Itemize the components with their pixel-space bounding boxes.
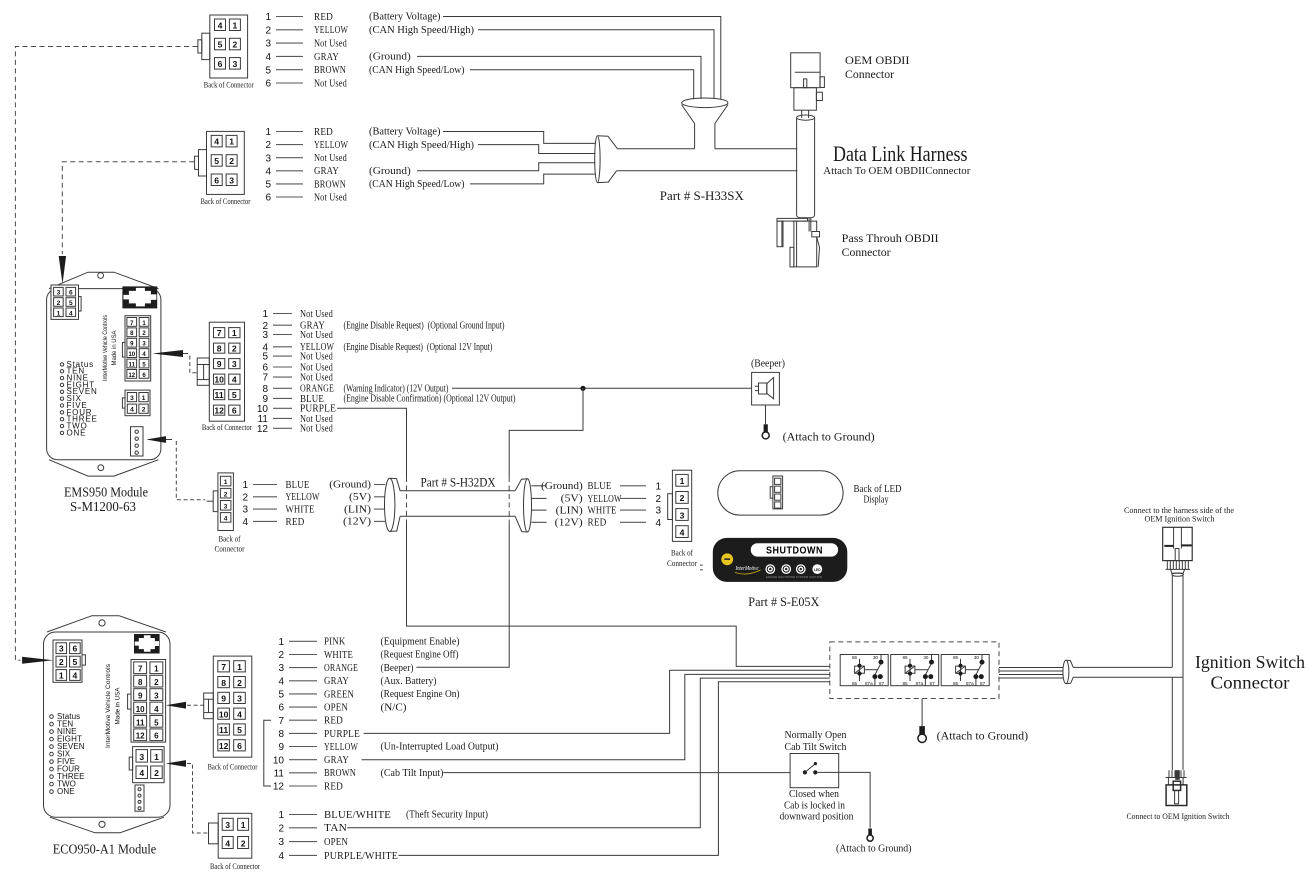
svg-text:Not Used: Not Used: [314, 77, 347, 89]
svg-text:SHUTDOWN: SHUTDOWN: [766, 546, 823, 557]
svg-text:87: 87: [980, 681, 986, 686]
svg-text:WHITE: WHITE: [588, 505, 617, 517]
svg-text:9: 9: [138, 692, 143, 701]
P5 pin 1: BLUE/WHITE (Theft Security Input): [278, 809, 488, 821]
svg-text:4: 4: [224, 516, 228, 523]
EMS950 12-pin connector (on module): [122, 316, 150, 381]
svg-text:(5V): (5V): [561, 494, 584, 505]
svg-text:2: 2: [59, 657, 64, 667]
ECO950 4-pin connector (on module): [129, 747, 164, 783]
svg-text:(Request Engine Off): (Request Engine Off): [381, 650, 459, 661]
P4 pin 7: RED: [278, 715, 343, 727]
label: Connect to the harness side of the OEM Ignition Switch: [1124, 506, 1234, 524]
svg-text:RED: RED: [286, 516, 305, 528]
svg-text:2: 2: [224, 491, 228, 498]
label: Back of Connector (P3): [667, 549, 697, 569]
svg-text:5: 5: [265, 65, 271, 76]
svg-text:(5V): (5V): [349, 492, 372, 503]
cab tilt switch: [790, 754, 839, 788]
J2 pin 4: GRAY (Ground): [265, 165, 411, 177]
wire: P5 pin4 (PURPLE/WHITE) to relay box: [398, 682, 829, 856]
svg-text:5: 5: [265, 180, 271, 191]
connector J1 (6-pin, back of connector): [198, 15, 248, 78]
svg-text:Connector: Connector: [845, 67, 894, 81]
svg-text:BROWN: BROWN: [314, 178, 346, 190]
svg-text:GRAY: GRAY: [314, 165, 339, 177]
svg-text:8: 8: [221, 678, 226, 688]
svg-text:Not Used: Not Used: [300, 308, 333, 320]
svg-text:6: 6: [265, 79, 271, 90]
svg-text:6: 6: [214, 175, 219, 185]
svg-text:11: 11: [215, 390, 224, 400]
svg-text:Attach To OEM OBDIIConnector: Attach To OEM OBDIIConnector: [823, 166, 971, 177]
svg-text:Not Used: Not Used: [300, 372, 333, 384]
svg-text:(Beeper): (Beeper): [381, 663, 414, 674]
svg-text:Back of LED: Back of LED: [854, 484, 902, 495]
arrow into EMS950 module 6-pin connector: [59, 256, 66, 284]
label: EMS950 Module S-M1200-63: [64, 486, 148, 516]
svg-text:9: 9: [217, 359, 222, 369]
svg-text:1: 1: [142, 395, 146, 402]
svg-text:(Request Engine On): (Request Engine On): [381, 689, 460, 700]
svg-text:4: 4: [265, 52, 271, 63]
svg-text:3: 3: [278, 663, 284, 674]
svg-text:(12V): (12V): [555, 518, 584, 529]
svg-text:(Ground): (Ground): [329, 480, 371, 491]
P2 signal labels (Ground/5V/LIN/12V): [329, 480, 385, 528]
svg-text:4: 4: [242, 517, 248, 528]
ground symbol (cab switch): [867, 829, 873, 842]
pass through OBDII connector: [777, 218, 820, 267]
svg-text:2: 2: [232, 344, 237, 354]
wire: P1 pin10 (PURPLE) to relay box: [337, 408, 830, 666]
svg-text:Part # S-H32DX: Part # S-H32DX: [421, 476, 496, 490]
wire: J1 pin1 to harness funnel: [443, 17, 721, 100]
stray marks left of shutdown display: [700, 565, 703, 570]
label: Pass Throuh OBDII Connector: [842, 231, 939, 259]
svg-text:OPEN: OPEN: [324, 836, 348, 848]
P1 pin 2: GRAY (Engine Disable Request)&#160;&#160;(Optional Ground Input): [262, 320, 504, 332]
svg-text:Back of Connector: Back of Connector: [204, 81, 254, 90]
svg-text:4: 4: [154, 705, 159, 714]
wire: P5 pin2 (TAN) to relay box: [347, 678, 830, 828]
svg-text:4: 4: [278, 851, 284, 862]
ECO950 vertical text: [105, 663, 122, 748]
svg-text:30: 30: [873, 655, 879, 660]
cable boot (S-H33SX harness entry): [595, 136, 618, 183]
svg-text:5: 5: [237, 725, 242, 735]
svg-text:1: 1: [59, 671, 64, 681]
P1 pin 5: Not Used: [262, 351, 333, 363]
svg-text:5: 5: [154, 718, 159, 727]
svg-text:Made in USA: Made in USA: [115, 687, 122, 724]
dashed lead: J1 latch to ECO950 module connector: [15, 47, 197, 661]
J1 pin 2: YELLOW (CAN High Speed/High): [265, 24, 474, 36]
svg-text:BLUE/WHITE: BLUE/WHITE: [324, 809, 391, 821]
svg-text:RED: RED: [314, 11, 333, 23]
wire: J2 pin2 to cable boot: [478, 145, 595, 154]
svg-text:(Attach to Ground): (Attach to Ground): [836, 843, 912, 854]
jumper bracket P4 pins 7-12: [264, 720, 271, 786]
svg-text:12: 12: [128, 373, 135, 379]
svg-text:(CAN High Speed/Low): (CAN High Speed/Low): [369, 65, 465, 76]
EMS950 vertical text: [102, 315, 118, 381]
svg-text:6: 6: [237, 741, 242, 751]
svg-text:BROWN: BROWN: [324, 767, 356, 779]
ECO950 mounting hole (top): [99, 620, 105, 626]
svg-text:10: 10: [219, 709, 229, 719]
svg-text:(Un-Interrupted Load Output): (Un-Interrupted Load Output): [381, 742, 499, 753]
svg-text:4: 4: [225, 838, 230, 848]
wire: P4 pin11 (BROWN) to cab tilt switch: [443, 772, 802, 774]
svg-text:87a: 87a: [865, 681, 873, 686]
svg-text:OEM Ignition Switch: OEM Ignition Switch: [1145, 515, 1215, 524]
ECO950 diagnostic jack (black): [134, 634, 160, 654]
svg-text:InterMotive Vehicle Controls: InterMotive Vehicle Controls: [102, 315, 109, 381]
svg-text:3: 3: [130, 395, 134, 402]
svg-text:9: 9: [278, 742, 284, 753]
wire: P4 pin8 (PURPLE) to relay box: [364, 670, 830, 733]
label: OEM OBDII Connector: [845, 53, 910, 81]
EMS950 6-pin connector (on module): [51, 285, 81, 319]
cable boot right (S-H32DX): [515, 479, 531, 532]
svg-text:Connector: Connector: [1211, 673, 1290, 693]
svg-text:(Aux. Battery): (Aux. Battery): [381, 676, 437, 687]
svg-text:11: 11: [129, 362, 136, 368]
P2 pin 1: BLUE: [242, 479, 309, 491]
relay K2: [891, 655, 939, 686]
svg-text:(LIN): (LIN): [556, 505, 584, 516]
label: Ignition Switch Connector: [1195, 652, 1305, 693]
svg-text:5: 5: [262, 352, 268, 363]
ground symbol (relays): [918, 726, 926, 742]
svg-text:Not Used: Not Used: [314, 152, 347, 164]
svg-text:3: 3: [59, 644, 64, 654]
dashed lead to ECO 12-pin back-of-connector: [187, 704, 204, 706]
svg-text:2: 2: [278, 823, 284, 834]
svg-text:1: 1: [232, 328, 237, 338]
svg-text:4: 4: [139, 768, 144, 778]
wire: J1 pin4 to harness funnel: [417, 56, 701, 99]
svg-text:Connector: Connector: [215, 545, 245, 554]
svg-text:6: 6: [69, 290, 73, 297]
svg-text:ONE: ONE: [57, 787, 75, 796]
svg-text:Back of: Back of: [671, 549, 693, 558]
svg-text:30: 30: [923, 655, 929, 660]
harness funnel to OEM OBDII branch: [682, 98, 728, 149]
svg-text:4: 4: [69, 310, 73, 317]
svg-text:10: 10: [214, 375, 224, 385]
cable boot (ignition switch harness): [1063, 660, 1073, 683]
P1 pin 6: Not Used: [262, 361, 333, 373]
EMS950 status LEDs: [60, 360, 97, 438]
label: Back of LED Display: [854, 484, 902, 506]
svg-text:(Ground): (Ground): [369, 166, 411, 177]
EMS950 mounting hole (bottom): [98, 465, 104, 471]
P1 pin 3: Not Used: [262, 329, 333, 341]
svg-text:OPEN: OPEN: [324, 702, 348, 714]
connector J2 (6-pin, back of connector): [195, 131, 245, 194]
ignition harness cable (horizontal): [1073, 667, 1183, 677]
svg-text:87a: 87a: [915, 681, 923, 686]
svg-text:RED: RED: [324, 715, 343, 727]
svg-text:2: 2: [680, 493, 685, 503]
svg-text:BLUE: BLUE: [286, 479, 310, 491]
svg-text:3: 3: [229, 175, 234, 185]
svg-text:2: 2: [142, 407, 146, 414]
svg-text:8: 8: [217, 344, 222, 354]
P1 pin 12: Not Used: [257, 423, 333, 435]
P4 pin 4: GRAY (Aux. Battery): [278, 675, 437, 687]
svg-text:1: 1: [154, 752, 159, 762]
svg-text:(Engine Disable Confirmation): (Engine Disable Confirmation) (Optional …: [344, 394, 516, 405]
svg-text:Not Used: Not Used: [314, 191, 347, 203]
svg-text:Back of Connector: Back of Connector: [202, 423, 252, 432]
cable boot left (S-H32DX): [385, 478, 401, 531]
svg-text:YELLOW: YELLOW: [588, 493, 622, 505]
svg-text:ORANGE: ORANGE: [324, 662, 358, 674]
svg-text:Ignition Switch: Ignition Switch: [1195, 652, 1305, 672]
J2 pin 6: Not Used: [265, 191, 347, 203]
svg-text:Not Used: Not Used: [300, 329, 333, 341]
EMS950 mounting hole (top): [98, 273, 104, 279]
svg-text:GRAY: GRAY: [324, 754, 349, 766]
wire: P1 pin8 (ORANGE) to beeper: [452, 387, 752, 389]
svg-text:(CAN High Speed/High): (CAN High Speed/High): [369, 25, 474, 36]
svg-text:3: 3: [233, 59, 238, 69]
ground symbol (beeper): [762, 424, 769, 439]
shutdown display (S-E05X): [713, 538, 848, 582]
J2 pin 1: RED (Battery Voltage): [265, 126, 441, 138]
svg-text:5: 5: [218, 40, 223, 50]
label: Normally Open Cab Tilt Switch: [785, 730, 848, 753]
ECO950 mounting hole (bottom): [99, 821, 105, 827]
svg-text:(Engine Disable Request) (Opt: (Engine Disable Request) (Optional 12V I…: [344, 342, 493, 353]
svg-text:(Battery Voltage): (Battery Voltage): [369, 12, 441, 23]
P1 pin 8: ORANGE (Warning Indicator) (12V Output): [262, 383, 448, 395]
svg-text:1: 1: [229, 137, 234, 147]
svg-text:WHITE: WHITE: [324, 649, 353, 661]
svg-text:85: 85: [852, 681, 858, 686]
svg-text:RED: RED: [324, 780, 343, 792]
svg-text:10: 10: [273, 755, 285, 766]
relay K3: [941, 655, 989, 686]
svg-text:1: 1: [242, 480, 248, 491]
dashed lead to LIN back-of-connector: [176, 441, 205, 500]
svg-text:InterMotive: InterMotive: [735, 566, 759, 572]
dashed lead to external 12-pin connector: [190, 356, 197, 373]
arrow from ECO950 12-pin connector: [166, 702, 186, 709]
svg-text:1: 1: [680, 476, 685, 486]
svg-text:1: 1: [278, 810, 284, 821]
P4 pin 8: PURPLE: [278, 728, 360, 740]
wire: P4 pin10 (GRAY) to relay box: [362, 674, 830, 759]
svg-text:YELLOW: YELLOW: [314, 24, 348, 36]
svg-text:Not Used: Not Used: [300, 423, 333, 435]
svg-text:RED: RED: [314, 126, 333, 138]
svg-text:Back of: Back of: [219, 535, 241, 544]
svg-text:TAN: TAN: [324, 822, 347, 834]
arrow into ECO950 6-pin connector: [22, 657, 53, 664]
wire: relay box to ground: [921, 699, 923, 727]
svg-text:9: 9: [221, 694, 226, 704]
svg-text:(CAN High Speed/Low): (CAN High Speed/Low): [369, 179, 465, 190]
svg-text:GREEN: GREEN: [324, 688, 354, 700]
svg-text:4: 4: [218, 20, 223, 30]
dashed lead: J2 latch to EMS950 module connector: [62, 162, 194, 254]
svg-text:1: 1: [265, 12, 271, 23]
wires: relay box to ignition boot: [999, 668, 1063, 679]
svg-text:6: 6: [278, 703, 284, 714]
svg-text:5: 5: [214, 156, 219, 166]
svg-text:1: 1: [656, 481, 662, 492]
svg-text:3: 3: [224, 503, 228, 510]
svg-text:7: 7: [138, 665, 143, 674]
svg-text:3: 3: [237, 694, 242, 704]
svg-text:87: 87: [879, 681, 885, 686]
svg-text:Normally Open: Normally Open: [785, 730, 848, 741]
svg-text:BROWN: BROWN: [314, 64, 346, 76]
svg-text:PURPLE/WHITE: PURPLE/WHITE: [324, 850, 398, 862]
svg-text:12: 12: [273, 782, 285, 793]
wires: right boot to labels: [531, 486, 546, 523]
P5 pin 2: TAN: [278, 822, 347, 834]
P4 pin 3: ORANGE (Beeper): [278, 662, 414, 674]
svg-text:(Attach to Ground): (Attach to Ground): [783, 431, 875, 443]
ECO950 12-pin connector (on module): [128, 660, 166, 743]
arrow from ECO950 4-pin connector: [166, 760, 186, 767]
P4 pin 5: GREEN (Request Engine On): [278, 688, 460, 700]
ignition harness connector (top): [1163, 527, 1193, 576]
svg-text:3: 3: [265, 39, 271, 50]
wire: beeper junction down to ECO pin3 (ORANGE beeper wire): [416, 388, 583, 667]
harness cable S-H33SX (horizontal): [617, 149, 798, 171]
svg-text:(Engine Disable Request) (Opt: (Engine Disable Request) (Optional Groun…: [344, 320, 505, 331]
svg-text:3: 3: [232, 359, 237, 369]
svg-text:YELLOW: YELLOW: [324, 741, 358, 753]
EMS950 LIN strip connector (on module): [131, 427, 144, 456]
svg-text:EMS950 Module: EMS950 Module: [64, 486, 148, 501]
connector P3 (4-pin, back of connector): [668, 470, 692, 541]
svg-text:5: 5: [278, 690, 284, 701]
svg-text:LED: LED: [814, 568, 821, 572]
ECO950 6-pin connector (on module): [53, 640, 85, 682]
svg-text:(Equipment Enable): (Equipment Enable): [381, 637, 460, 648]
svg-text:4: 4: [73, 671, 78, 681]
svg-text:30: 30: [974, 655, 980, 660]
svg-text:PURPLE: PURPLE: [324, 728, 360, 740]
svg-text:6: 6: [265, 193, 271, 204]
dashed lead to ECO 4-pin back-of-connector: [187, 764, 208, 834]
svg-text:2: 2: [265, 25, 271, 36]
svg-text:10: 10: [128, 352, 135, 358]
svg-text:(Attach to Ground): (Attach to Ground): [937, 730, 1029, 742]
svg-text:BLUE: BLUE: [588, 480, 612, 492]
cable S-H32DX: [400, 491, 515, 517]
svg-text:(Cab Tilt Input): (Cab Tilt Input): [381, 768, 444, 779]
beeper: [752, 372, 780, 405]
heat-shrink tube (data link drop): [797, 115, 815, 218]
svg-text:3: 3: [265, 153, 271, 164]
svg-text:WHITE: WHITE: [286, 504, 315, 516]
svg-text:1: 1: [241, 820, 246, 830]
svg-text:1: 1: [57, 310, 61, 317]
J1 pin 5: BROWN (CAN High Speed/Low): [265, 64, 465, 76]
ignition harness connector (bottom): [1166, 770, 1187, 805]
relay K1: [840, 655, 888, 686]
wire: beeper to ground: [765, 405, 767, 424]
svg-text:1: 1: [265, 127, 271, 138]
svg-text:Display: Display: [864, 495, 890, 506]
svg-text:4: 4: [214, 137, 219, 147]
svg-text:1: 1: [154, 665, 159, 674]
ignition harness cable (vertical): [1172, 576, 1183, 770]
svg-text:85: 85: [953, 681, 959, 686]
P3 signal labels and pin list (right of cable): [541, 480, 662, 529]
svg-text:3: 3: [262, 330, 268, 341]
J2 pin 3: Not Used: [265, 152, 347, 164]
junction dot on beeper wire: [580, 386, 585, 391]
connector P5 (4-pin, back of connector): [209, 813, 252, 858]
P4 pin 10: GRAY: [273, 754, 349, 766]
svg-text:Cab Tilt Switch: Cab Tilt Switch: [785, 742, 848, 753]
svg-text:10: 10: [136, 705, 145, 714]
svg-text:1: 1: [233, 20, 238, 30]
svg-text:ENGINE SHUTDOWN SYSTEM CAUTION: ENGINE SHUTDOWN SYSTEM CAUTION: [766, 575, 822, 579]
wire: J2 pin4 to cable boot: [417, 163, 595, 171]
P4 pin 11: BROWN (Cab Tilt Input): [274, 767, 444, 779]
svg-text:2: 2: [241, 838, 246, 848]
svg-text:4: 4: [265, 166, 271, 177]
J1 pin 1: RED (Battery Voltage): [265, 11, 441, 23]
svg-text:8: 8: [278, 729, 284, 740]
svg-text:11: 11: [274, 768, 285, 779]
relay box (dashed): [830, 642, 999, 699]
P2 pin 4: RED: [242, 516, 304, 528]
svg-text:downward position: downward position: [780, 811, 855, 822]
wire: J1 pin5 to harness funnel: [470, 70, 694, 100]
svg-text:2: 2: [154, 678, 159, 687]
svg-text:12: 12: [214, 406, 224, 416]
svg-text:Connect to the harness side of: Connect to the harness side of the: [1124, 506, 1234, 515]
svg-text:1: 1: [278, 637, 284, 648]
svg-text:86: 86: [953, 655, 959, 660]
P4 pin 9: YELLOW (Un-Interrupted Load Output): [278, 741, 499, 753]
svg-text:Connector: Connector: [842, 245, 891, 259]
P1 pin 4: YELLOW (Engine Disable Request)&#160;&#160;(Optional 12V Input): [262, 341, 492, 353]
P4 pin 2: WHITE (Request Engine Off): [278, 649, 458, 661]
svg-text:5: 5: [73, 657, 78, 667]
svg-text:Connector: Connector: [667, 559, 697, 568]
svg-text:2: 2: [237, 678, 242, 688]
back of LED display (pill): [718, 471, 843, 515]
svg-text:Not Used: Not Used: [314, 38, 347, 50]
svg-text:Pass Throuh OBDII: Pass Throuh OBDII: [842, 231, 939, 245]
wire: J2 pin5 to cable boot: [470, 174, 595, 184]
J1 pin 3: Not Used: [265, 38, 347, 50]
svg-text:3: 3: [154, 692, 159, 701]
OEM OBDII connector: [791, 53, 825, 118]
svg-text:11: 11: [219, 725, 228, 735]
EMS950 diagnostic jack (black): [122, 286, 157, 308]
svg-text:3: 3: [225, 820, 230, 830]
wire: J2 pin1 to cable boot: [443, 132, 595, 144]
svg-text:86: 86: [902, 655, 908, 660]
svg-text:(Ground): (Ground): [369, 52, 411, 63]
P2 pin 3: WHITE: [242, 504, 314, 516]
svg-text:(LIN): (LIN): [344, 504, 372, 515]
svg-text:7: 7: [217, 328, 222, 338]
